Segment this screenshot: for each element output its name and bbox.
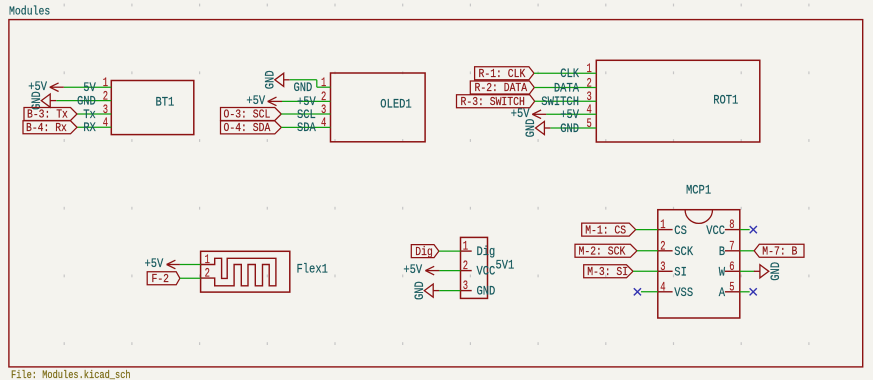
ground GND at 5V1 pin3 xyxy=(413,281,439,300)
svg-text:5: 5 xyxy=(729,280,734,294)
ground GND at BT1 pin2 xyxy=(30,91,56,110)
wire OLED1 pin4 SDA xyxy=(281,126,330,128)
svg-text:1: 1 xyxy=(205,253,210,267)
svg-text:SCK: SCK xyxy=(674,245,693,259)
svg-text:SDA: SDA xyxy=(297,121,316,135)
svg-text:B-4: Rx: B-4: Rx xyxy=(26,121,67,135)
svg-text:1: 1 xyxy=(321,76,326,90)
svg-text:2: 2 xyxy=(205,267,210,281)
svg-text:OLED1: OLED1 xyxy=(380,98,411,112)
svg-text:DATA: DATA xyxy=(554,81,579,95)
hierarchical label F-2 xyxy=(147,272,180,286)
OLED1 pin numbers 1-4 xyxy=(321,76,326,130)
wire ROT1 pin1 CLK xyxy=(534,72,596,74)
svg-text:GND: GND xyxy=(560,122,579,136)
svg-text:M-1: CS: M-1: CS xyxy=(585,223,626,237)
svg-text:8: 8 xyxy=(729,218,734,232)
svg-text:A: A xyxy=(719,286,726,300)
Flex1 pin numbers 1-2 xyxy=(205,253,210,281)
power +5V at OLED1 pin2 xyxy=(246,94,282,108)
wire 5V1 pin1 Dig xyxy=(439,250,461,252)
svg-text:F-2: F-2 xyxy=(152,272,170,286)
svg-text:MCP1: MCP1 xyxy=(686,184,711,198)
wire 5V1 pin2 VCC xyxy=(439,270,460,272)
BT1 pin names xyxy=(77,81,96,135)
ROT1 pin names xyxy=(541,67,579,136)
svg-text:VSS: VSS xyxy=(674,286,693,300)
wire MCP1 pin5 A xyxy=(740,291,750,293)
svg-text:2: 2 xyxy=(103,89,108,103)
svg-text:VCC: VCC xyxy=(706,224,725,238)
svg-text:1: 1 xyxy=(587,62,592,76)
svg-text:GND: GND xyxy=(524,119,538,138)
svg-text:5V: 5V xyxy=(83,81,96,95)
svg-text:SWITCH: SWITCH xyxy=(541,95,579,109)
svg-text:+5V: +5V xyxy=(560,108,579,122)
svg-text:5: 5 xyxy=(587,117,592,131)
MCP1 left pin stubs xyxy=(658,230,673,292)
ground GND at ROT1 pin5 xyxy=(524,119,550,138)
MCP1 right pin names xyxy=(706,224,725,300)
wire ROT1 pin3 SWITCH xyxy=(535,100,597,102)
svg-text:GND: GND xyxy=(413,281,427,300)
hierarchical label M-2: SCK xyxy=(575,244,637,258)
svg-text:B-3: Tx: B-3: Tx xyxy=(27,108,68,122)
hierarchical label O-4: SDA xyxy=(221,121,282,135)
wire MCP1 pin7 B xyxy=(740,250,754,252)
svg-text:R-2: DATA: R-2: DATA xyxy=(475,81,528,95)
svg-text:CLK: CLK xyxy=(560,67,579,81)
wire MCP1 pin3 SI xyxy=(633,270,658,272)
BT1 pin numbers 1-4 xyxy=(103,76,108,130)
5V1 pin numbers 1-3 xyxy=(463,239,468,293)
svg-text:RX: RX xyxy=(83,121,96,135)
svg-text:BT1: BT1 xyxy=(156,95,175,109)
hierarchical label O-3: SCL xyxy=(221,108,282,122)
svg-text:R-1: CLK: R-1: CLK xyxy=(479,67,527,81)
svg-text:M-2: SCK: M-2: SCK xyxy=(579,245,627,259)
svg-text:3: 3 xyxy=(660,260,665,274)
svg-text:Flex1: Flex1 xyxy=(297,262,328,276)
svg-text:GND: GND xyxy=(477,285,496,299)
svg-text:5V1: 5V1 xyxy=(496,259,515,273)
wire BT1 pin3 Tx xyxy=(77,113,111,115)
MCP1 right pin stubs xyxy=(725,230,740,292)
svg-text:O-4: SDA: O-4: SDA xyxy=(224,121,272,135)
svg-text:M-3: SI: M-3: SI xyxy=(587,265,628,279)
svg-text:File: Modules.kicad_sch: File: Modules.kicad_sch xyxy=(11,370,131,380)
wire Flex1 pin2 F-2 xyxy=(180,277,201,279)
svg-text:4: 4 xyxy=(587,103,592,117)
power +5V at ROT1 pin4 xyxy=(511,107,547,121)
wire BT1 pin1 5V xyxy=(64,86,112,88)
svg-text:3: 3 xyxy=(587,90,592,104)
wire ROT1 pin2 DATA xyxy=(534,87,596,89)
svg-text:+5V: +5V xyxy=(246,94,265,108)
no-connect X at MCP1 pin8 xyxy=(750,226,757,233)
svg-text:VCC: VCC xyxy=(477,265,496,279)
hierarchical label B-4: Rx xyxy=(23,121,77,135)
hierarchical label M-7: B (points left) xyxy=(754,244,804,258)
svg-text:2: 2 xyxy=(587,76,592,90)
hierarchical label R-2: DATA xyxy=(470,81,534,95)
wire ROT1 pin4 +5V xyxy=(546,113,596,115)
svg-text:7: 7 xyxy=(729,239,734,253)
svg-text:Dig: Dig xyxy=(415,245,433,259)
hierarchical label B-3: Tx xyxy=(24,108,77,122)
MCP1 left pin names xyxy=(674,224,693,300)
hierarchical label Dig xyxy=(411,245,439,259)
svg-text:Tx: Tx xyxy=(83,108,96,122)
5V1 pin stubs xyxy=(461,251,472,291)
module ROT1 body xyxy=(596,60,760,142)
svg-text:CS: CS xyxy=(674,224,687,238)
svg-text:1: 1 xyxy=(660,218,665,232)
hierarchical label M-3: SI xyxy=(584,265,633,279)
svg-text:ROT1: ROT1 xyxy=(713,94,738,108)
svg-text:2: 2 xyxy=(463,259,468,273)
5V1 pin names xyxy=(477,245,496,299)
wire MCP1 pin6 W xyxy=(740,270,755,272)
svg-text:M-7: B: M-7: B xyxy=(762,245,797,259)
module OLED1 body xyxy=(331,73,426,142)
svg-text:1: 1 xyxy=(103,76,108,90)
no-connect X at MCP1 pin4 xyxy=(634,288,641,295)
svg-text:3: 3 xyxy=(463,279,468,293)
flex sensor Flex1 body xyxy=(201,251,290,292)
module BT1 body xyxy=(111,81,194,135)
svg-text:+5V: +5V xyxy=(145,257,164,271)
Flex1 meander trace xyxy=(201,258,276,286)
grid dots (decorative) xyxy=(64,4,810,345)
svg-text:3: 3 xyxy=(103,103,108,117)
wire Flex1 pin1 +5V xyxy=(180,264,201,266)
svg-text:SCL: SCL xyxy=(297,108,316,122)
power +5V at 5V1 pin2 xyxy=(403,263,439,277)
no-connect X at MCP1 pin5 xyxy=(750,288,757,295)
MCP1 left pin numbers 1-4 xyxy=(660,218,665,294)
ground GND at OLED1 pin1 xyxy=(264,70,290,89)
svg-text:O-3: SCL: O-3: SCL xyxy=(224,108,271,122)
wire 5V1 pin3 GND xyxy=(439,290,460,292)
wire MCP1 pin8 VCC xyxy=(740,229,750,231)
MCP1 right pin numbers 8-5 xyxy=(729,218,734,294)
svg-text:6: 6 xyxy=(729,260,734,274)
svg-text:SI: SI xyxy=(674,266,687,280)
ROT1 pin numbers 1-5 xyxy=(587,62,592,131)
power +5V at BT1 pin1 xyxy=(28,80,64,94)
hierarchical label M-1: CS xyxy=(582,223,636,237)
svg-text:+5V: +5V xyxy=(403,263,422,277)
regulator 5V1 body xyxy=(461,237,488,298)
wire MCP1 pin2 SCK xyxy=(637,250,658,252)
OLED1 pin names xyxy=(294,81,317,135)
svg-text:GND: GND xyxy=(264,70,278,89)
svg-text:GND: GND xyxy=(294,81,313,95)
wire BT1 pin2 GND xyxy=(56,100,111,102)
hierarchical label R-1: CLK xyxy=(475,67,534,81)
wire OLED1 pin1 GND with jog xyxy=(290,80,331,87)
svg-text:4: 4 xyxy=(103,116,108,130)
wire ROT1 pin5 GND xyxy=(551,127,597,129)
svg-text:GND: GND xyxy=(77,94,96,108)
ground GND at MCP1 pin6 xyxy=(754,262,783,281)
wire MCP1 pin4 VSS xyxy=(641,291,658,293)
svg-text:4: 4 xyxy=(321,116,326,130)
svg-text:4: 4 xyxy=(660,280,665,294)
svg-text:2: 2 xyxy=(660,239,665,253)
svg-text:3: 3 xyxy=(321,103,326,117)
digital potentiometer MCP1 body xyxy=(658,210,740,318)
wire MCP1 pin1 CS xyxy=(636,229,658,231)
svg-text:GND: GND xyxy=(769,262,783,281)
svg-text:Modules: Modules xyxy=(9,4,50,18)
svg-text:W: W xyxy=(719,266,726,280)
wire OLED1 pin2 +5V xyxy=(282,100,331,102)
wire BT1 pin4 RX xyxy=(77,126,111,128)
svg-text:Dig: Dig xyxy=(477,245,496,259)
svg-text:1: 1 xyxy=(463,239,468,253)
wire OLED1 pin3 SCL xyxy=(281,113,330,115)
svg-text:B: B xyxy=(719,245,726,259)
power +5V at Flex1 pin1 xyxy=(145,257,180,271)
hierarchical label R-3: SWITCH xyxy=(457,95,535,109)
